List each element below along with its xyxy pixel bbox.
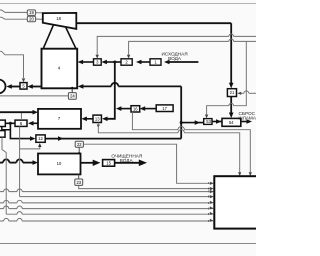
wire 16 into riser2 [120, 108, 131, 110]
node dot A [9, 122, 12, 125]
thin wire to 3 top [97, 36, 256, 54]
thin drop from 6 [19, 126, 21, 196]
wire into 10 (from left edge) [0, 162, 3, 164]
thin drop from BB [2, 137, 6, 214]
wire 22 to controller [83, 144, 209, 183]
box 12 [36, 135, 45, 142]
bundle line 2 (from drop 19.6) [20, 196, 210, 198]
thin wire to 2 top [129, 41, 256, 54]
box AA (left edge, cut) [0, 120, 5, 126]
svg-text:23: 23 [76, 180, 81, 185]
wire 54 out (sludge discharge) [241, 121, 248, 123]
box 53 [204, 119, 212, 125]
box 2 [121, 59, 132, 65]
controller box [214, 176, 260, 228]
box 5 [20, 83, 27, 90]
wire 21 to 54 [230, 97, 232, 114]
wire down to 21 [230, 23, 232, 84]
wire junction A to 12 [10, 123, 31, 138]
thin wire to 5 top [0, 51, 24, 78]
box 21 [227, 89, 236, 97]
svg-text:17: 17 [162, 106, 167, 111]
node dot feed junction [113, 61, 116, 64]
riser2 wire x=114.8 down from feed junction [106, 62, 115, 119]
bundle line 6 [0, 220, 210, 222]
top frame line [0, 3, 256, 5]
svg-text:22: 22 [77, 142, 82, 147]
arrow below box 13 [97, 125, 100, 128]
svg-text:12: 12 [38, 136, 43, 141]
sensor box 22 [75, 141, 83, 147]
svg-text:ШЛАМА: ШЛАМА [238, 115, 256, 120]
recycle wire riser to vessel 4 [118, 85, 181, 87]
svg-text:24: 24 [70, 94, 75, 99]
svg-text:53: 53 [206, 119, 211, 124]
bottom frame line [0, 243, 256, 245]
box 17 [156, 105, 173, 112]
feed stub wire [168, 61, 198, 63]
box 54 [222, 118, 241, 126]
wire 10 to 15 [81, 162, 95, 164]
wire 4 to 5 [32, 86, 42, 88]
svg-text:19: 19 [29, 10, 34, 15]
sensor box 20 [27, 16, 35, 22]
wire 13 to 7 [86, 118, 93, 120]
riser wire x=181 [180, 86, 182, 138]
bottom run wire 12 to riser [45, 138, 181, 140]
svg-text:54: 54 [229, 120, 234, 125]
wire 3 to 4 [82, 61, 94, 63]
sensor box 24 [68, 93, 76, 100]
svg-text:20: 20 [29, 16, 34, 21]
pump circle [0, 80, 6, 94]
bundle line 3 [0, 202, 210, 204]
vessel 10 [38, 154, 81, 175]
bundle line 4 [0, 208, 210, 210]
wire 24 to vessel 4 [71, 88, 73, 93]
node dot on riser [180, 121, 183, 124]
stub 23 to vessel 10 [78, 174, 80, 179]
svg-text:10: 10 [57, 161, 62, 166]
box 6 [15, 120, 27, 126]
box 15 [103, 160, 115, 167]
svg-text:ВОДА: ВОДА [168, 56, 182, 61]
wire input A (top-left) [0, 10, 27, 12]
wire pump riser to 7 input [0, 111, 34, 113]
stub 22 to vessel 10 [78, 147, 80, 153]
wire input B (top-left) [0, 17, 27, 19]
box BB (left edge lower, cut) [0, 131, 5, 138]
funnel left line [43, 25, 53, 49]
wire 2 to 3 [106, 61, 121, 63]
box 13 [93, 115, 101, 122]
stub below box AA [2, 127, 11, 130]
wire 7 to 6 [32, 122, 38, 124]
wire 5 to pump [11, 86, 20, 88]
wire 6 to node A to box AA [5, 122, 15, 124]
bundle line 5 (from drop 6.2) [6, 213, 210, 215]
svg-text:15: 15 [106, 161, 111, 166]
thin wire to 21 right [249, 92, 256, 94]
sensor box 19 [27, 10, 35, 16]
wire 15 out (clean water) [115, 162, 141, 164]
svg-text:21: 21 [230, 90, 235, 95]
wire 17 to 16 [144, 108, 156, 110]
vessel 4 [42, 49, 78, 89]
svg-text:16: 16 [133, 107, 138, 112]
apparatus 18 (trapezoid) [43, 13, 77, 29]
box 1 [150, 59, 161, 65]
wire 1 to 2 [140, 61, 150, 63]
bundle line 1 [0, 191, 210, 193]
wire 18 to node (top long run) [76, 22, 231, 24]
thin wire from thick line to 6 top [20, 113, 22, 120]
sensor box 23 [75, 179, 83, 185]
thin wire control to 53 [234, 41, 247, 105]
wire 53 to 54 [212, 121, 222, 123]
thin wire L2 from 13 to controller top [98, 123, 178, 133]
wire 23 to controller [79, 185, 210, 188]
thin wire L1 from 16 to controller top [132, 112, 178, 130]
wire riser to 53 [181, 122, 204, 124]
thin wire into 12 bottom [20, 146, 40, 149]
svg-text:13: 13 [95, 116, 100, 121]
svg-text:ВОДА: ВОДА [120, 158, 134, 163]
vessel 7 [38, 109, 81, 129]
box 16 [131, 106, 140, 112]
box 3 [94, 59, 102, 65]
svg-text:18: 18 [56, 16, 61, 21]
funnel right line [66, 28, 76, 49]
wire 24 to left edge [0, 95, 68, 97]
